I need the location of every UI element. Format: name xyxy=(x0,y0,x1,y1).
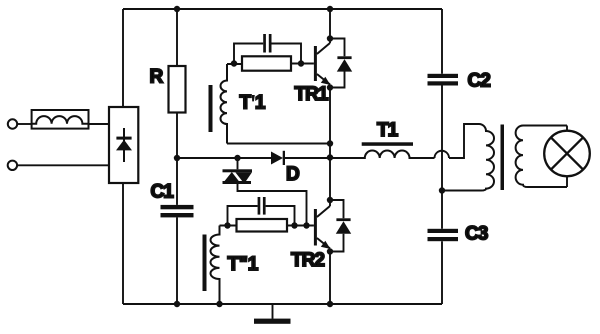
svg-text:C2: C2 xyxy=(468,71,491,92)
wire top rail xyxy=(123,8,442,10)
svg-text:TR2: TR2 xyxy=(291,250,324,271)
capacitor TR1 base xyxy=(263,34,271,53)
inductor input filter choke xyxy=(32,110,109,129)
node R top rail junction xyxy=(174,6,180,12)
svg-text:T: T xyxy=(240,93,252,114)
wire left rail upper xyxy=(122,9,124,107)
node R C1 mid junction xyxy=(174,155,180,161)
transistor TR2 xyxy=(314,206,331,249)
wire R to mid node xyxy=(176,113,178,205)
svg-text:T1: T1 xyxy=(377,120,399,141)
ground xyxy=(254,304,291,324)
node T"1 bottom rail junction xyxy=(216,301,222,307)
node T"1 RC right junction xyxy=(291,222,297,228)
node output transformer right rail junction xyxy=(439,187,445,193)
svg-text:TR1: TR1 xyxy=(295,84,329,105)
node half-bridge midpoint junction xyxy=(327,154,333,160)
lamp xyxy=(544,131,590,177)
wire mid horizontal xyxy=(177,157,330,159)
terminal input 2 xyxy=(8,161,17,170)
node TR1 collector top rail junction xyxy=(327,6,333,12)
wire hop over right rail xyxy=(435,124,480,158)
transformer winding T"1 coil xyxy=(211,226,220,305)
svg-text:R: R xyxy=(150,67,164,88)
resistor TR1 base xyxy=(242,56,291,70)
node TR2 base junction xyxy=(303,222,309,228)
svg-text:D: D xyxy=(286,164,299,185)
node TR1 collector diode junction xyxy=(327,35,333,41)
wire secondary bottom lead xyxy=(566,176,568,187)
transistor TR1 xyxy=(314,43,331,85)
wire secondary top lead xyxy=(523,126,567,131)
node TR1 base junction xyxy=(298,60,304,66)
wire T'1 bottom to bridge midpoint xyxy=(227,143,330,145)
transformer winding T"1 core xyxy=(203,235,207,292)
diode D xyxy=(271,151,285,165)
capacitor C1 xyxy=(161,205,194,218)
wire input line 1 xyxy=(17,123,31,125)
capacitor TR2 base xyxy=(258,197,266,215)
node TR2 collector diode junction xyxy=(327,197,333,203)
transformer winding T'1 core xyxy=(209,85,213,132)
inductor T1 xyxy=(330,151,435,158)
wire TR1 base cap loop xyxy=(234,44,301,64)
rectifier bridge xyxy=(109,107,138,183)
node TR2 emitter bottom rail junction xyxy=(327,301,333,307)
transformer output primary coil xyxy=(442,124,494,191)
terminal input 1 xyxy=(8,119,17,128)
capacitor C3 xyxy=(428,229,459,241)
wire right rail xyxy=(441,9,443,304)
wire TR2 base cap loop xyxy=(228,206,295,226)
node TR2 emitter diode junction xyxy=(327,248,333,254)
transformer winding T'1 coil xyxy=(221,64,228,144)
svg-text:C1: C1 xyxy=(151,182,175,203)
wire C1 to bottom rail xyxy=(176,217,178,304)
node T"1 RC left junction xyxy=(224,222,230,228)
svg-text:1: 1 xyxy=(255,93,266,114)
node C1 bottom rail junction xyxy=(174,301,180,307)
diode antiparallel TR1 xyxy=(330,39,352,88)
wire T"1 top edge xyxy=(220,225,314,227)
wire bridge rail xyxy=(329,9,331,304)
diac xyxy=(223,158,307,226)
wire input line 2 xyxy=(17,164,109,166)
wire bottom rail xyxy=(123,303,442,305)
transformer output core xyxy=(501,125,505,191)
wire R branch from top rail xyxy=(176,9,178,66)
wire left rail lower xyxy=(122,183,124,304)
node diac tap junction xyxy=(234,155,240,161)
wire T'1 top edge xyxy=(227,63,314,66)
svg-text:T"1: T"1 xyxy=(228,254,259,275)
diode antiparallel TR2 xyxy=(330,200,351,252)
label T'1 xyxy=(240,93,266,114)
svg-text:C3: C3 xyxy=(465,224,488,245)
node T'1 RC left junction xyxy=(231,60,237,66)
capacitor C2 xyxy=(428,74,459,86)
resistor TR2 base xyxy=(237,219,288,232)
resistor R xyxy=(169,66,186,113)
transformer output secondary coil xyxy=(516,126,567,188)
node TR1 emitter diode junction xyxy=(327,84,333,90)
inductor T1 bar xyxy=(362,142,413,146)
node T'1 bottom junction xyxy=(327,140,333,146)
